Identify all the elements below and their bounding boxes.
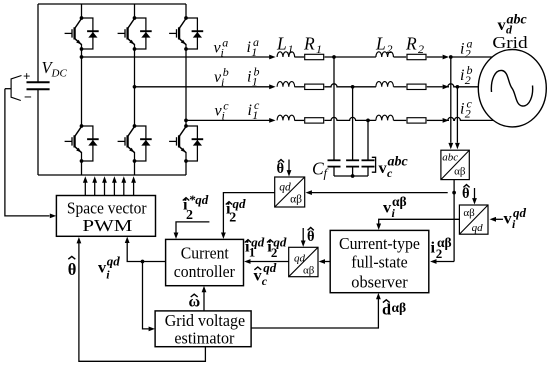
svg-text:2: 2 [229,211,236,226]
svg-text:αβ: αβ [454,166,466,178]
svg-text:Space vector: Space vector [67,198,147,217]
svg-text:b: b [254,65,260,79]
svg-text:αβ: αβ [392,194,407,209]
svg-text:qd: qd [294,253,306,265]
svg-text:2: 2 [186,208,193,223]
svg-text:*qd: *qd [189,192,209,207]
svg-text:c: c [223,99,229,113]
svg-text:estimator: estimator [174,329,234,348]
svg-text:i: i [460,101,464,118]
svg-text:qd: qd [263,260,277,275]
svg-text:2: 2 [387,42,393,56]
svg-text:a: a [467,37,473,51]
svg-text:i: i [247,39,251,56]
svg-text:qd: qd [513,205,527,220]
svg-text:a: a [222,36,228,50]
svg-text:c: c [254,98,260,112]
svg-text:1: 1 [288,42,294,56]
svg-text:i: i [431,238,436,257]
svg-text:i: i [460,41,464,58]
svg-text:L: L [276,34,287,54]
svg-text:abc: abc [388,155,409,170]
svg-text:αβ: αβ [392,300,407,315]
svg-text:αβ: αβ [463,207,475,219]
svg-text:Current: Current [181,243,229,262]
svg-text:θ: θ [68,260,77,279]
svg-text:ω: ω [189,294,201,311]
svg-text:c: c [467,97,473,111]
svg-text:qd: qd [251,234,265,249]
svg-text:Grid: Grid [492,33,528,52]
svg-text:R: R [303,34,315,54]
svg-text:R: R [405,34,417,54]
svg-text:full-state: full-state [351,252,407,271]
svg-text:controller: controller [174,262,235,281]
svg-text:qd: qd [273,234,287,249]
svg-text:i: i [247,69,251,86]
svg-text:observer: observer [351,273,408,292]
svg-text:+: + [23,69,30,84]
svg-text:qd: qd [279,182,291,194]
svg-text:αβ: αβ [290,194,302,206]
svg-text:C: C [312,159,324,179]
svg-text:a: a [253,35,259,49]
svg-text:αβ: αβ [437,235,452,250]
svg-text:PWM: PWM [82,216,132,235]
svg-text:qd: qd [233,196,247,211]
svg-text:θ: θ [307,229,315,245]
svg-text:abc: abc [442,152,458,164]
svg-text:θ: θ [462,186,470,202]
svg-text:DC: DC [51,68,68,80]
svg-text:i: i [460,67,464,84]
svg-text:c: c [262,274,268,288]
svg-text:αβ: αβ [303,264,315,276]
svg-text:Grid voltage: Grid voltage [165,311,245,330]
svg-text:qd: qd [472,222,484,234]
svg-text:1: 1 [316,42,322,56]
svg-text:i: i [248,102,252,119]
svg-text:2: 2 [418,42,424,56]
svg-text:Current-type: Current-type [339,234,420,253]
svg-text:b: b [223,65,229,79]
svg-text:−: − [24,91,32,106]
svg-text:qd: qd [107,254,121,269]
svg-text:L: L [375,34,386,54]
svg-text:abc: abc [507,13,528,28]
svg-text:θ: θ [277,161,285,177]
svg-text:b: b [467,63,473,77]
